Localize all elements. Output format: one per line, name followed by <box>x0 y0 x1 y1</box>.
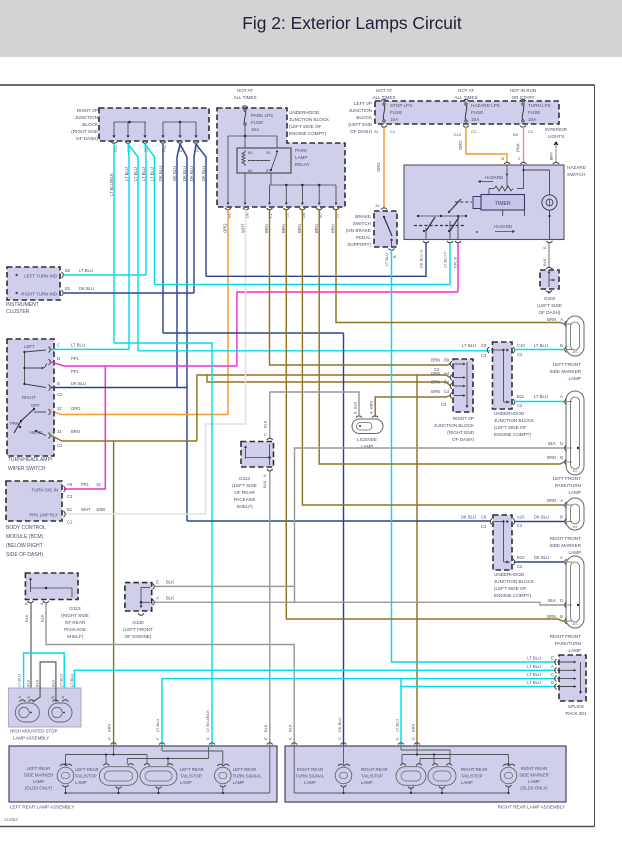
diagram number <box>4 817 18 822</box>
hazard switch bottom pin labels <box>419 246 555 270</box>
svg-text:D: D <box>551 680 554 685</box>
wire BRN 5 (left front marker) <box>336 209 564 324</box>
svg-text:BRN: BRN <box>264 224 269 233</box>
svg-text:A: A <box>370 411 374 414</box>
wire ORG hazard feed <box>458 127 507 163</box>
svg-text:LICENSE: LICENSE <box>357 437 377 442</box>
svg-text:LEFT: LEFT <box>24 344 35 349</box>
left front side marker lamp <box>565 316 584 356</box>
svg-text:G100: G100 <box>132 620 144 625</box>
svg-text:LEFT REAR: LEFT REAR <box>27 766 51 771</box>
body control module box <box>6 481 62 521</box>
svg-text:B4: B4 <box>513 132 519 137</box>
svg-text:C: C <box>57 343 60 348</box>
right rear lamp captions <box>296 766 549 791</box>
svg-text:RIGHT: RIGHT <box>22 395 36 400</box>
page right border <box>594 85 596 827</box>
svg-text:LAMP: LAMP <box>295 155 308 160</box>
RIPJB2 pin labels <box>431 358 450 408</box>
high mounted stop lamp box <box>9 688 81 727</box>
svg-text:TIMER: TIMER <box>495 201 511 207</box>
svg-text:15A: 15A <box>390 117 399 122</box>
right front park-turn lamp <box>565 556 584 628</box>
instrument cluster connectors <box>62 272 64 296</box>
G411 caption <box>232 476 257 509</box>
svg-text:LAMP: LAMP <box>568 490 581 495</box>
svg-text:HOT IN RUN: HOT IN RUN <box>510 88 537 93</box>
svg-text:B: B <box>560 343 563 348</box>
svg-text:TURN SIG IN: TURN SIG IN <box>31 488 58 493</box>
right rear assembly caption <box>498 805 565 810</box>
svg-text:BLK: BLK <box>263 724 268 732</box>
hazard switch label <box>567 165 587 177</box>
svg-text:ENGINE COMPT): ENGINE COMPT) <box>289 131 326 136</box>
svg-text:LT BLU F: LT BLU F <box>443 251 448 268</box>
G100 pin labels <box>156 580 174 601</box>
right I/P junction block label <box>71 108 99 141</box>
svg-text:PPL: PPL <box>71 356 80 361</box>
svg-text:PPL K: PPL K <box>453 256 458 268</box>
svg-text:TAIL/STOP: TAIL/STOP <box>180 774 202 779</box>
svg-text:SHELF): SHELF) <box>67 634 84 639</box>
svg-text:DK BLU: DK BLU <box>534 515 549 520</box>
svg-text:LEFT FRONT: LEFT FRONT <box>553 362 581 367</box>
svg-text:A: A <box>156 596 159 601</box>
G411 pin labels <box>262 420 267 488</box>
svg-text:A4: A4 <box>444 371 450 376</box>
underhood junction block 3 label <box>494 572 535 598</box>
svg-text:HAZARD LPS: HAZARD LPS <box>471 103 500 108</box>
BCM connectors <box>64 486 66 517</box>
svg-text:RIGHT REAR: RIGHT REAR <box>361 767 387 772</box>
svg-text:TAIL/STOP: TAIL/STOP <box>75 774 97 779</box>
svg-text:BRN: BRN <box>281 224 286 233</box>
svg-text:DK BLU: DK BLU <box>158 166 163 181</box>
svg-text:G314: G314 <box>239 476 251 481</box>
svg-text:STOP LPS: STOP LPS <box>390 103 412 108</box>
svg-text:JUNCTION BLOCK: JUNCTION BLOCK <box>494 579 535 584</box>
svg-text:A: A <box>262 474 267 477</box>
switch caption <box>8 457 53 472</box>
svg-text:HOT AT: HOT AT <box>458 88 474 93</box>
svg-text:LAMP: LAMP <box>528 779 540 784</box>
svg-text:D: D <box>57 356 60 361</box>
svg-text:LT BLU: LT BLU <box>71 343 85 348</box>
svg-text:B10: B10 <box>517 555 525 560</box>
svg-text:OF ENGINE): OF ENGINE) <box>125 634 152 639</box>
interior lights arrow <box>549 141 559 163</box>
svg-text:HAZARD: HAZARD <box>494 224 512 229</box>
svg-text:BLK: BLK <box>263 420 268 428</box>
svg-text:DK BLU: DK BLU <box>337 717 342 732</box>
svg-text:PEDAL: PEDAL <box>356 235 372 240</box>
svg-text:DK BLU: DK BLU <box>182 166 187 181</box>
svg-text:PNK: PNK <box>516 143 521 152</box>
svg-text:PACKAGE: PACKAGE <box>234 497 256 502</box>
underhood junction block label <box>289 110 330 136</box>
svg-text:B1: B1 <box>67 507 73 512</box>
svg-text:LAMP: LAMP <box>33 779 45 784</box>
UHJB2 pin labels <box>462 343 563 408</box>
svg-text:(RIGHT SIDE: (RIGHT SIDE <box>61 613 89 618</box>
right I/P junction block box <box>99 108 209 141</box>
wire DK BLU right front trunk <box>187 520 490 522</box>
svg-text:(LEFT SIDE: (LEFT SIDE <box>232 483 257 488</box>
svg-text:BRN: BRN <box>71 429 80 434</box>
svg-text:SIDE MARKER: SIDE MARKER <box>24 773 54 778</box>
svg-text:BRN: BRN <box>431 358 440 363</box>
turn-headlamp switch internals <box>10 344 47 436</box>
svg-text:BRN: BRN <box>431 371 440 376</box>
svg-text:C3: C3 <box>481 524 487 529</box>
svg-text:F: F <box>395 737 400 740</box>
svg-text:B: B <box>501 157 504 161</box>
wire ORG stop feed <box>376 128 384 208</box>
svg-text:INTERIOR: INTERIOR <box>545 127 568 132</box>
svg-text:BLK: BLK <box>50 679 55 687</box>
svg-text:A9: A9 <box>67 482 73 487</box>
svg-text:LAMP: LAMP <box>233 780 245 785</box>
svg-text:LT BLU/BLK: LT BLU/BLK <box>109 173 114 196</box>
svg-text:PRK: PRK <box>10 421 19 426</box>
rear wire rotated labels <box>107 710 416 740</box>
interior lights label <box>545 127 568 139</box>
left front park-turn caption <box>553 476 581 495</box>
hazard switch box <box>404 165 564 240</box>
wire LT BLU to left front park <box>514 401 564 403</box>
svg-text:114364: 114364 <box>4 817 18 822</box>
junction block wire colour labels <box>109 166 206 196</box>
svg-text:(LEFT SIDE OF: (LEFT SIDE OF <box>494 586 527 591</box>
stop lamps fuse <box>381 99 412 122</box>
svg-text:PPL: PPL <box>81 482 90 487</box>
svg-text:HOT AT: HOT AT <box>237 88 253 93</box>
underhood block bottom connectors <box>225 208 339 210</box>
high mount lamp jumper LT BLU <box>24 653 65 702</box>
svg-text:LAMP: LAMP <box>461 780 473 785</box>
underhood junction block 2 box <box>493 342 513 409</box>
svg-text:B: B <box>560 515 563 520</box>
left front side marker caption <box>549 362 581 381</box>
svg-text:C12: C12 <box>454 132 462 137</box>
svg-text:B1: B1 <box>65 286 71 291</box>
svg-text:OF DASH): OF DASH) <box>76 136 98 141</box>
svg-text:16: 16 <box>96 482 101 487</box>
svg-text:B: B <box>24 602 29 605</box>
brake switch bottom connector <box>384 249 397 267</box>
hazard switch top connectors <box>501 157 559 164</box>
brake switch contact <box>383 216 393 247</box>
svg-text:D: D <box>411 737 416 740</box>
wires from right I/P junction block <box>114 144 206 521</box>
junction block pin connectors <box>111 142 199 144</box>
svg-text:PARK LPS: PARK LPS <box>251 113 273 118</box>
svg-text:INSTRUMENT: INSTRUMENT <box>6 302 39 308</box>
svg-text:G313: G313 <box>69 606 81 611</box>
svg-text:BLK: BLK <box>24 614 29 622</box>
left I/P junction block label <box>348 101 373 134</box>
svg-text:WHT: WHT <box>81 507 91 512</box>
svg-text:F: F <box>155 737 160 740</box>
instrument cluster labels <box>15 274 57 297</box>
svg-text:PARK/TURN: PARK/TURN <box>555 641 581 646</box>
svg-text:SWITCH: SWITCH <box>567 172 585 177</box>
svg-text:RIGHT REAR LAMP ASSEMBLY: RIGHT REAR LAMP ASSEMBLY <box>498 805 565 810</box>
svg-text:RIGHT FRONT: RIGHT FRONT <box>550 536 581 541</box>
svg-text:A10: A10 <box>517 515 525 520</box>
svg-text:TAIL/STOP: TAIL/STOP <box>361 774 383 779</box>
svg-text:C1: C1 <box>57 443 63 448</box>
page bottom border <box>0 826 595 828</box>
svg-text:ORG: ORG <box>71 406 81 411</box>
svg-text:DK BLU: DK BLU <box>534 555 549 560</box>
svg-text:(LEFT SIDE OF: (LEFT SIDE OF <box>494 425 527 430</box>
svg-text:C: C <box>518 157 521 161</box>
fuse strip box <box>375 101 559 124</box>
svg-text:BLK: BLK <box>548 441 556 446</box>
svg-text:HOT AT: HOT AT <box>376 88 392 93</box>
svg-text:B11: B11 <box>113 144 118 152</box>
G203 ground box <box>540 267 559 294</box>
svg-text:E: E <box>263 737 268 740</box>
svg-text:LT BLU: LT BLU <box>124 167 129 181</box>
svg-text:SIDE OF DASH): SIDE OF DASH) <box>6 552 43 558</box>
svg-text:C4: C4 <box>444 389 450 394</box>
svg-text:LT BLU: LT BLU <box>395 719 400 732</box>
svg-text:TURN SIGNAL: TURN SIGNAL <box>296 774 325 779</box>
svg-text:PRK LMP RLY: PRK LMP RLY <box>29 513 58 518</box>
svg-text:SIDE MARKER: SIDE MARKER <box>519 773 549 778</box>
svg-text:LEFT REAR: LEFT REAR <box>75 767 99 772</box>
svg-text:BRAKE: BRAKE <box>355 214 371 219</box>
park lamps fuse <box>242 106 273 132</box>
svg-text:BLOCK: BLOCK <box>82 122 99 127</box>
wire BLK G100 A to right front <box>155 602 564 605</box>
svg-text:SWITCH: SWITCH <box>353 221 371 226</box>
svg-text:SIDE MARKER: SIDE MARKER <box>549 543 581 548</box>
right I/P junction block 2 box <box>453 359 473 412</box>
svg-text:ENGINE COMPT): ENGINE COMPT) <box>494 432 531 437</box>
svg-text:B2: B2 <box>65 268 71 273</box>
svg-text:C2: C2 <box>517 352 523 357</box>
left rear lamp internals <box>57 747 270 794</box>
svg-text:BRN: BRN <box>547 498 556 503</box>
front lamp wire labels <box>547 317 563 619</box>
svg-text:A: A <box>560 498 563 503</box>
svg-text:(BELOW RIGHT: (BELOW RIGHT <box>6 543 43 549</box>
high mount BLK jumper <box>33 662 56 702</box>
svg-text:6.0: 6.0 <box>573 469 578 473</box>
hazard switch internals <box>414 165 557 240</box>
svg-text:ALL TIMES: ALL TIMES <box>233 95 256 100</box>
svg-text:BRN: BRN <box>297 224 302 233</box>
svg-text:C2: C2 <box>517 564 523 569</box>
underhood junction block 2 label <box>494 411 535 437</box>
svg-text:LAMP ASSEMBLY: LAMP ASSEMBLY <box>13 736 49 741</box>
wire DK BLU turn trunk <box>163 333 344 746</box>
wire BLK license to ground <box>270 392 359 438</box>
wire switch 32 ORG <box>0 0 1 1</box>
svg-text:A: A <box>560 394 563 399</box>
svg-text:BRN: BRN <box>547 455 556 460</box>
UHJB3 pin labels <box>461 515 563 570</box>
G413 caption <box>61 606 89 639</box>
left rear lamp assembly box <box>9 746 277 802</box>
svg-text:BLK: BLK <box>353 401 358 409</box>
svg-text:31: 31 <box>57 429 62 434</box>
hot at all times label (hazard fuse) <box>454 88 477 100</box>
svg-text:UNDERHOOD: UNDERHOOD <box>289 110 320 115</box>
svg-text:LT BLU: LT BLU <box>534 343 548 348</box>
relay contact <box>248 150 278 171</box>
splice pack box <box>559 655 586 701</box>
svg-text:JUNCTION BLOCK: JUNCTION BLOCK <box>494 418 535 423</box>
svg-text:BLK: BLK <box>166 580 174 585</box>
page rule <box>0 84 595 86</box>
svg-text:A1: A1 <box>375 204 380 208</box>
svg-text:OF DASH): OF DASH) <box>452 437 474 442</box>
svg-text:D: D <box>107 737 112 740</box>
wire ORG park feed <box>54 209 228 415</box>
svg-text:LAMP: LAMP <box>568 648 581 653</box>
right rear lamp assembly box <box>285 746 566 802</box>
wire BLK left front park ground <box>295 448 565 602</box>
svg-text:15A: 15A <box>251 127 260 132</box>
svg-text:LT BLU/BLK: LT BLU/BLK <box>205 710 210 732</box>
svg-text:ENGINE COMPT): ENGINE COMPT) <box>494 593 531 598</box>
cluster pin labels <box>65 268 94 291</box>
splice caption <box>565 704 587 716</box>
svg-text:FUSE: FUSE <box>251 120 263 125</box>
wire BRN 3 (right front marker) <box>302 209 564 505</box>
turn-headlamp switch box <box>7 339 54 456</box>
wire switch B DK BLU <box>51 387 187 389</box>
wire LT BLU/BLK trunk <box>114 343 212 746</box>
hazard switch bottom connectors <box>423 241 553 243</box>
BCM labels <box>29 488 58 518</box>
wire LT BLU brake to splice <box>392 250 557 662</box>
svg-text:TURN SIGNAL: TURN SIGNAL <box>233 774 262 779</box>
instrument cluster caption <box>6 302 39 315</box>
G100 caption <box>123 620 153 639</box>
svg-text:HIGH MOUNTED STOP: HIGH MOUNTED STOP <box>10 729 58 734</box>
svg-text:6.0: 6.0 <box>573 350 578 354</box>
svg-text:OF REAR: OF REAR <box>234 490 255 495</box>
svg-text:6.0: 6.0 <box>573 622 578 626</box>
svg-text:A: A <box>560 317 563 322</box>
wire PNK turn feed <box>516 127 524 163</box>
svg-text:RIGHT REAR: RIGHT REAR <box>461 767 487 772</box>
svg-text:LT BLU: LT BLU <box>69 674 74 687</box>
park lamp relay box <box>237 148 291 173</box>
right I/P junction block 2 label <box>434 416 475 442</box>
svg-text:LT BLU: LT BLU <box>527 680 541 685</box>
wire BLK hazard to G203 <box>548 243 550 268</box>
svg-text:LT BLU: LT BLU <box>527 672 541 677</box>
fuse pin labels <box>374 129 534 137</box>
right front side marker caption <box>549 536 581 555</box>
svg-text:C2: C2 <box>517 523 523 528</box>
left front park-turn lamp <box>565 391 584 475</box>
svg-text:C: C <box>337 737 342 740</box>
BCM caption <box>6 525 46 558</box>
svg-text:C1: C1 <box>471 129 477 134</box>
svg-text:LT BLU: LT BLU <box>534 394 548 399</box>
svg-text:C2: C2 <box>67 494 73 499</box>
svg-text:BODY CONTROL: BODY CONTROL <box>6 525 46 531</box>
G413 ground box <box>25 573 78 603</box>
svg-text:ORG: ORG <box>376 162 381 172</box>
fuse strip bottom connectors <box>381 126 526 128</box>
svg-text:B: B <box>354 411 358 414</box>
svg-text:SPLICE: SPLICE <box>568 704 584 709</box>
wire switch D PPL <box>51 243 458 489</box>
svg-text:UNDERHOOD: UNDERHOOD <box>494 411 525 416</box>
svg-text:BLK: BLK <box>166 596 174 601</box>
hot at all times label (stop fuse) <box>372 88 395 100</box>
svg-text:JUNCTION BLOCK: JUNCTION BLOCK <box>434 423 475 428</box>
high mount lamp 1 <box>15 700 39 722</box>
svg-text:LEFT REAR LAMP ASSEMBLY: LEFT REAR LAMP ASSEMBLY <box>10 805 74 810</box>
turn-headlamp switch connectors <box>49 347 51 439</box>
wire LT BLU splice A <box>66 670 556 701</box>
svg-text:ORG: ORG <box>223 223 228 233</box>
wire switch 31 BRN <box>51 375 450 746</box>
underhood junction block 2 internals <box>487 347 515 405</box>
svg-text:15A: 15A <box>471 117 480 122</box>
wire LT BLU to left front marker <box>514 349 564 351</box>
G413 pin labels <box>24 602 45 622</box>
svg-text:OF REAR: OF REAR <box>65 620 86 625</box>
svg-text:C2: C2 <box>57 392 63 397</box>
svg-text:RIGHT I/P: RIGHT I/P <box>77 108 98 113</box>
svg-text:(LEFT END: (LEFT END <box>348 122 372 127</box>
svg-text:C7: C7 <box>334 212 339 218</box>
svg-text:E: E <box>542 246 547 249</box>
svg-text:10A: 10A <box>528 117 537 122</box>
right front park-turn caption <box>550 634 581 653</box>
svg-text:UNDERHOOD: UNDERHOOD <box>494 572 525 577</box>
svg-text:(ON BRAKE: (ON BRAKE <box>346 228 371 233</box>
svg-text:C8: C8 <box>481 515 487 520</box>
wire left turn indicator LT BLU <box>64 274 146 276</box>
svg-text:B: B <box>393 255 397 258</box>
right rear lamp internals <box>294 747 517 794</box>
svg-text:B9: B9 <box>444 358 450 363</box>
wire LT BLU splice D <box>401 679 556 746</box>
svg-text:(OLDS ONLY): (OLDS ONLY) <box>25 786 53 791</box>
park lamp relay label <box>295 148 310 167</box>
svg-text:LT BLU: LT BLU <box>462 343 476 348</box>
svg-text:ORG: ORG <box>458 140 463 150</box>
high mount rotated labels <box>17 674 74 699</box>
svg-text:OF DASH): OF DASH) <box>350 129 372 134</box>
svg-text:G: G <box>560 598 563 603</box>
svg-text:PACK 301: PACK 301 <box>565 711 587 716</box>
svg-text:Fig 2: Exterior Lamps Circuit: Fig 2: Exterior Lamps Circuit <box>242 13 462 33</box>
svg-text:LT BLU: LT BLU <box>527 664 541 669</box>
junction block pin labels <box>113 144 200 152</box>
junction block bus <box>112 121 197 138</box>
right front side marker lamp <box>565 498 584 530</box>
underhood block wire colour labels <box>223 223 336 233</box>
wire BLK G413 B <box>30 603 32 703</box>
right I/P junction block 2 internals <box>450 361 468 408</box>
svg-text:D5: D5 <box>301 212 306 218</box>
svg-text:B: B <box>560 455 563 460</box>
svg-text:C1: C1 <box>528 129 534 134</box>
svg-text:(LEFT SIDE OF: (LEFT SIDE OF <box>289 124 322 129</box>
